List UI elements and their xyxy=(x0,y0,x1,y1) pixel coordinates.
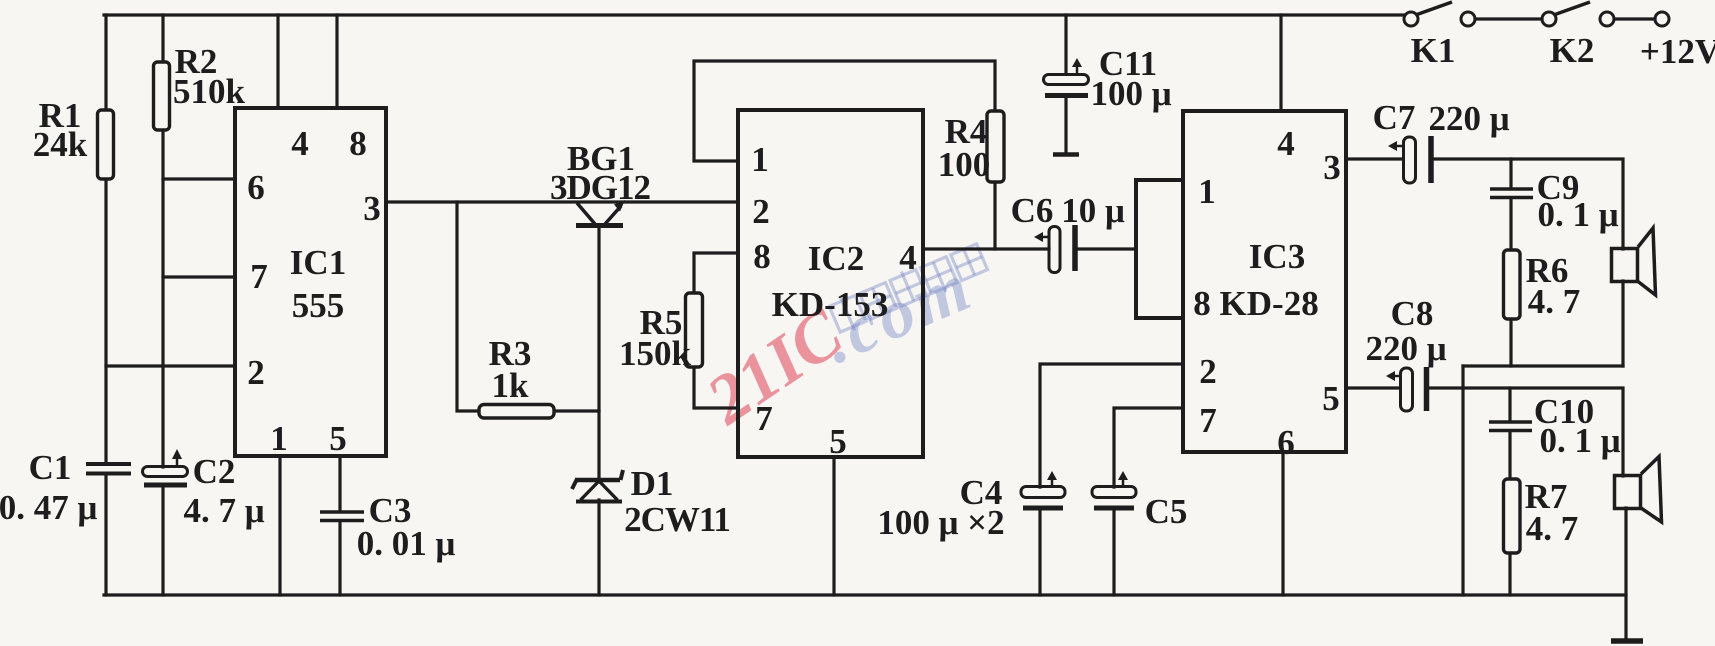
svg-text:KD-153: KD-153 xyxy=(772,285,889,324)
svg-text:5: 5 xyxy=(329,419,347,458)
wire speaker Y2 to ground xyxy=(1624,508,1627,641)
wire IC2 pin4 to C6 xyxy=(923,247,1049,250)
wire return rail xyxy=(1461,366,1464,595)
capacitor C7 xyxy=(1388,136,1431,183)
wire R2 rail lower xyxy=(161,486,164,595)
wire left rail lower xyxy=(104,475,107,595)
svg-text:10 μ: 10 μ xyxy=(1061,191,1125,230)
svg-text:100 μ ×2: 100 μ ×2 xyxy=(877,503,1004,542)
wire R3 right lead xyxy=(554,409,599,412)
svg-text:24k: 24k xyxy=(33,125,88,164)
wire IC1 pin2 xyxy=(106,364,235,367)
svg-text:0. 1 μ: 0. 1 μ xyxy=(1539,421,1620,460)
wire R5 to IC2 pin7 xyxy=(694,367,738,408)
wire C3 upper lead xyxy=(338,456,341,511)
node +12V terminal xyxy=(1655,12,1669,26)
capacitor C1 xyxy=(86,464,131,474)
wire top bus xyxy=(104,13,1404,16)
svg-text:7: 7 xyxy=(250,257,268,296)
wire K1 to K2 xyxy=(1475,17,1542,20)
wire C5 bottom lead xyxy=(1112,510,1115,595)
wire IC1 pin4 drop xyxy=(276,15,279,108)
speaker Y2 xyxy=(1615,457,1662,523)
svg-text:K2: K2 xyxy=(1550,31,1595,70)
svg-text:2: 2 xyxy=(1199,352,1217,391)
svg-text:4: 4 xyxy=(899,238,917,277)
svg-text:4. 7: 4. 7 xyxy=(1526,509,1579,548)
wire C6 to IC3 tab xyxy=(1078,247,1136,250)
svg-text:+12V: +12V xyxy=(1640,32,1715,71)
svg-text:C8: C8 xyxy=(1391,294,1434,333)
svg-text:4: 4 xyxy=(291,124,309,163)
wire IC3 pin2 to C4 xyxy=(1040,364,1183,487)
svg-text:3DG12: 3DG12 xyxy=(550,168,650,207)
wire IC1 pin1 drop xyxy=(278,456,281,595)
capacitor C8 xyxy=(1386,367,1427,411)
svg-text:0. 1 μ: 0. 1 μ xyxy=(1537,195,1618,234)
wire R7 bottom lead xyxy=(1508,553,1511,595)
svg-text:IC1: IC1 xyxy=(290,243,346,282)
capacitor C6 xyxy=(1034,225,1075,273)
wire IC1 pin3 to IC2 pin2 xyxy=(386,200,738,203)
svg-text:6: 6 xyxy=(1277,423,1295,462)
resistor R1 xyxy=(98,110,114,179)
wire IC3 pin6 drop xyxy=(1281,452,1284,595)
wire IC1 pin6 xyxy=(163,177,235,180)
svg-text:220 μ: 220 μ xyxy=(1428,99,1509,138)
svg-text:2: 2 xyxy=(752,192,770,231)
capacitor C9 xyxy=(1490,189,1533,198)
svg-text:8: 8 xyxy=(753,237,771,276)
svg-text:C2: C2 xyxy=(193,452,236,491)
wire IC2 pin8 to R5 xyxy=(694,253,738,293)
svg-text:IC2: IC2 xyxy=(808,239,864,278)
wire bottom bus xyxy=(104,593,1626,596)
transistor Q1 BG1 xyxy=(576,200,625,226)
wire IC3 pin3 to C7 xyxy=(1346,157,1403,160)
svg-text:C1: C1 xyxy=(29,448,72,487)
wire C11 bottom lead xyxy=(1064,98,1067,153)
svg-text:3: 3 xyxy=(363,189,381,228)
wire K2 to +12V xyxy=(1614,17,1655,20)
wire R4 bottom lead xyxy=(993,182,996,249)
svg-text:C6: C6 xyxy=(1011,191,1054,230)
resistor R3 xyxy=(479,405,554,419)
resistor R2 xyxy=(154,62,170,130)
svg-text:D1: D1 xyxy=(631,464,674,503)
svg-text:7: 7 xyxy=(1199,401,1217,440)
wire C10 to R7 xyxy=(1508,431,1511,479)
wire C10 top lead xyxy=(1508,388,1511,421)
resistor R7 xyxy=(1504,479,1521,553)
svg-text:0. 01 μ: 0. 01 μ xyxy=(357,524,456,563)
wire IC1 pin7 xyxy=(163,275,235,278)
svg-text:7: 7 xyxy=(755,399,773,438)
resistor R4 xyxy=(987,111,1004,182)
capacitor C5 xyxy=(1092,471,1136,508)
op-amp IC3 box xyxy=(1183,111,1346,452)
svg-text:2CW11: 2CW11 xyxy=(624,500,730,539)
svg-text:555: 555 xyxy=(292,286,345,325)
ground xyxy=(1611,638,1643,644)
svg-text:100 μ: 100 μ xyxy=(1090,74,1171,113)
svg-text:0. 47 μ: 0. 47 μ xyxy=(0,488,97,527)
switch K1 xyxy=(1404,2,1475,26)
svg-text:1: 1 xyxy=(270,419,288,458)
svg-text:100: 100 xyxy=(938,145,991,184)
op-amp IC1 box xyxy=(235,108,386,456)
svg-text:4. 7: 4. 7 xyxy=(1528,282,1581,321)
svg-text:2: 2 xyxy=(247,353,265,392)
wire D1 to bottom bus xyxy=(597,500,600,595)
wire R6 return bus xyxy=(1463,364,1623,367)
watermark 21IC xyxy=(693,294,857,440)
wire R2 rail upper xyxy=(161,15,164,467)
svg-text:C7: C7 xyxy=(1373,98,1416,137)
capacitor C4 xyxy=(1021,471,1065,508)
svg-text:150k: 150k xyxy=(619,334,692,373)
svg-text:5: 5 xyxy=(829,422,847,461)
svg-text:1k: 1k xyxy=(492,366,530,405)
svg-text:IC3: IC3 xyxy=(1249,237,1305,276)
resistor R6 xyxy=(1504,250,1521,319)
resistor R5 xyxy=(686,293,703,367)
wire IC1 pin8 drop xyxy=(335,15,338,108)
svg-text:8: 8 xyxy=(349,124,367,163)
wire IC2 pin1 loop xyxy=(694,61,995,161)
op-amp IC3 pin1 tab xyxy=(1136,180,1183,318)
op-amp IC2 box xyxy=(738,110,923,457)
wire IC3 pin4 drop xyxy=(1279,15,1282,111)
speaker Y1 xyxy=(1612,228,1656,295)
svg-text:8 KD-28: 8 KD-28 xyxy=(1193,284,1318,323)
svg-text:1: 1 xyxy=(751,140,769,179)
svg-text:220 μ: 220 μ xyxy=(1365,329,1446,368)
wire C11 top lead xyxy=(1064,15,1067,74)
wire C9 top lead xyxy=(1509,159,1512,188)
svg-text:K1: K1 xyxy=(1411,31,1456,70)
diode D1 zener xyxy=(572,470,623,502)
wire IC2 pin5 drop xyxy=(832,457,835,595)
svg-text:5: 5 xyxy=(1322,379,1340,418)
wire C3 lower lead xyxy=(338,521,341,595)
svg-text:1: 1 xyxy=(1198,172,1216,211)
wire C8 to speaker Y2 xyxy=(1429,388,1623,476)
wire IC3 pin5 to C8 xyxy=(1346,386,1400,389)
wire C9 to R6 xyxy=(1509,198,1512,250)
wire R3 drop xyxy=(457,202,479,411)
svg-text:4: 4 xyxy=(1277,124,1295,163)
wire R6 bottom lead xyxy=(1509,319,1512,366)
capacitor C10 xyxy=(1489,422,1532,431)
wire speaker Y1 return xyxy=(1621,281,1624,366)
capacitor C3 xyxy=(320,512,364,521)
wire IC3 pin7 to C5 xyxy=(1114,408,1183,487)
svg-text:6: 6 xyxy=(247,168,265,207)
wire C7 to speaker Y1 xyxy=(1432,159,1623,249)
svg-text:510k: 510k xyxy=(173,72,246,111)
svg-text:C5: C5 xyxy=(1145,492,1188,531)
capacitor C2 xyxy=(143,449,188,485)
wire BG1 base to D1 xyxy=(597,228,600,480)
svg-text:3: 3 xyxy=(1323,148,1341,187)
watermark CJK glyphs xyxy=(828,240,989,336)
wire left rail upper xyxy=(104,15,107,463)
wire C4 bottom lead xyxy=(1038,510,1041,595)
capacitor C11 xyxy=(1044,58,1089,155)
switch K2 xyxy=(1542,2,1614,26)
watermark .com xyxy=(812,248,984,379)
svg-text:4. 7 μ: 4. 7 μ xyxy=(183,491,264,530)
